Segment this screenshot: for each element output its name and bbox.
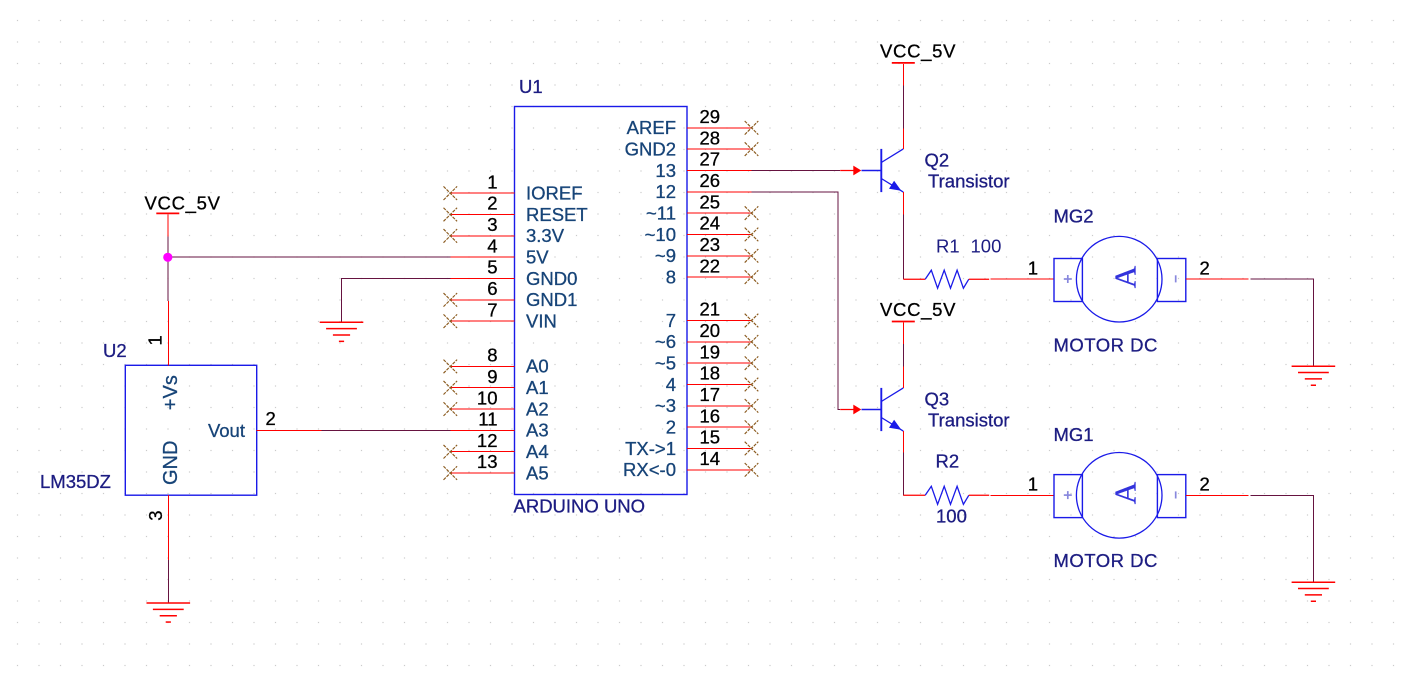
- U1 pin 11 (A3): [450, 409, 548, 441]
- resistor R2: [903, 486, 989, 504]
- wire Q2 emitter down to R1: [902, 215, 904, 280]
- unconnected pin marker U1 pin 9: [444, 381, 458, 395]
- svg-text:25: 25: [700, 191, 721, 212]
- wire U2 GND pin to ground: [167, 560, 169, 603]
- IC U1 ARDUINO UNO body: [515, 107, 688, 495]
- unconnected pin marker U1 pin 6: [444, 293, 458, 307]
- svg-text:MOTOR DC: MOTOR DC: [1054, 335, 1158, 356]
- power symbol VCC_5V above Q3: [880, 299, 956, 322]
- wire VCC to Q2 collector: [902, 64, 904, 86]
- transistor Q3 (NPN): [862, 388, 904, 431]
- U1 pin 18 (4): [666, 363, 752, 395]
- U1 pin 19 (~5): [655, 341, 752, 373]
- unconnected pin marker U1 pin 22: [745, 270, 759, 284]
- svg-text:VCC_5V: VCC_5V: [145, 193, 221, 215]
- label R1 100: [936, 235, 1001, 256]
- svg-text:GND2: GND2: [625, 138, 676, 159]
- power symbol VCC_5V left (U2 supply): [145, 193, 221, 215]
- unconnected pin marker U1 pin 14: [745, 463, 759, 477]
- U1 pin 12 (A4): [450, 430, 548, 462]
- unconnected pin marker U1 pin 20: [745, 335, 759, 349]
- svg-text:U2: U2: [103, 340, 127, 361]
- svg-text:22: 22: [700, 255, 721, 276]
- wire MG2 pin 2 to ground: [1250, 279, 1313, 366]
- Q2 emitter stub: [902, 192, 904, 215]
- U1 pin 21 (7): [666, 299, 752, 331]
- svg-text:18: 18: [700, 363, 721, 384]
- svg-text:IOREF: IOREF: [526, 183, 583, 204]
- unconnected pin marker U1 pin 2: [444, 208, 458, 222]
- svg-text:3: 3: [487, 214, 497, 235]
- U1 pin 23 (~9): [655, 234, 752, 266]
- svg-text:8: 8: [666, 266, 676, 287]
- unconnected pin marker U1 pin 24: [745, 228, 759, 242]
- U2 pin 1 stub: [167, 301, 169, 365]
- svg-text:2: 2: [1200, 257, 1210, 278]
- svg-text:2: 2: [1200, 473, 1210, 494]
- U1 pin 15 (TX->1): [625, 427, 751, 459]
- svg-text:100: 100: [936, 505, 967, 526]
- IC U2 LM35DZ body: [125, 365, 256, 495]
- svg-text:2: 2: [487, 193, 497, 214]
- svg-text:6: 6: [487, 278, 497, 299]
- svg-text:MOTOR DC: MOTOR DC: [1054, 550, 1158, 571]
- svg-text:Vout: Vout: [208, 420, 245, 441]
- unconnected pin marker U1 pin 28: [745, 142, 759, 156]
- svg-text:9: 9: [487, 366, 497, 387]
- Q2 collector stub: [902, 128, 904, 149]
- wire U1 pin 27 (13) to Q2 base: [752, 170, 841, 172]
- U2 pin 3 stub: [167, 495, 169, 560]
- U1 pin 26 (12): [655, 170, 751, 202]
- svg-text:11: 11: [478, 409, 497, 430]
- svg-text:LM35DZ: LM35DZ: [40, 471, 111, 492]
- unconnected pin marker U1 pin 8: [444, 360, 458, 374]
- U1 pin 2 (RESET): [450, 193, 587, 225]
- unconnected pin marker U1 pin 10: [444, 402, 458, 416]
- svg-text:~6: ~6: [655, 331, 676, 352]
- svg-text:~3: ~3: [655, 395, 676, 416]
- MG2 pin 1 stub: [991, 278, 1055, 280]
- unconnected pin marker U1 pin 7: [444, 314, 458, 328]
- unconnected pin marker U1 pin 21: [745, 314, 759, 328]
- svg-text:AREF: AREF: [627, 117, 676, 138]
- ground for U1 GND0: [320, 322, 364, 341]
- svg-text:4: 4: [666, 374, 676, 395]
- svg-text:A5: A5: [526, 462, 549, 483]
- svg-text:A0: A0: [526, 356, 549, 377]
- svg-text:1: 1: [487, 171, 497, 192]
- ground for MG2: [1292, 366, 1336, 385]
- svg-text:1: 1: [1028, 257, 1038, 278]
- U1 pin 9 (A1): [450, 366, 548, 398]
- svg-text:26: 26: [700, 170, 721, 191]
- svg-text:RESET: RESET: [526, 204, 588, 225]
- U1 pin 4 (5V): [450, 235, 549, 267]
- svg-text:1: 1: [144, 335, 165, 345]
- U1 pin 17 (~3): [655, 384, 752, 416]
- svg-text:Q3: Q3: [925, 388, 950, 409]
- svg-text:~9: ~9: [655, 245, 676, 266]
- svg-text:A3: A3: [526, 420, 549, 441]
- svg-text:5: 5: [487, 257, 497, 278]
- unconnected pin marker U1 pin 23: [745, 249, 759, 263]
- svg-text:~5: ~5: [655, 353, 676, 374]
- svg-text:+Vs: +Vs: [160, 375, 182, 410]
- svg-text:ARDUINO UNO: ARDUINO UNO: [514, 496, 646, 517]
- unconnected pin marker U1 pin 1: [444, 186, 458, 200]
- svg-text:GND0: GND0: [526, 268, 577, 289]
- junction node at VCC/5V: [163, 253, 172, 262]
- svg-text:27: 27: [700, 149, 721, 170]
- resistor R1: [903, 270, 989, 288]
- svg-text:8: 8: [487, 345, 497, 366]
- svg-text:R1: R1: [936, 235, 960, 256]
- motor MG1: [1054, 453, 1186, 539]
- power symbol VCC_5V above Q2: [880, 41, 956, 63]
- U1 pin 24 (~10): [645, 213, 752, 245]
- unconnected pin marker U1 pin 13: [444, 466, 458, 480]
- svg-text:GND: GND: [160, 441, 182, 485]
- svg-text:3: 3: [145, 511, 166, 521]
- wire VCC to Q3 collector: [902, 323, 904, 344]
- unconnected pin marker U1 pin 25: [745, 206, 759, 220]
- MG1 pin 1 stub: [991, 494, 1055, 496]
- svg-text:Transistor: Transistor: [928, 170, 1010, 191]
- U1 pin 6 (GND1): [450, 278, 577, 310]
- unconnected pin marker U1 pin 18: [745, 378, 759, 392]
- svg-text:RX<-0: RX<-0: [623, 459, 676, 480]
- U1 pin 29 (AREF): [627, 106, 752, 138]
- transistor Q2 (NPN): [862, 149, 904, 192]
- Q3 emitter stub: [902, 431, 904, 453]
- svg-text:2: 2: [266, 408, 276, 429]
- U1 pin 8 (A0): [450, 345, 548, 377]
- U1 pin 13 (A5): [450, 451, 548, 483]
- unconnected pin marker U1 pin 12: [444, 445, 458, 459]
- svg-text:A: A: [1107, 481, 1142, 504]
- svg-text:12: 12: [477, 430, 498, 451]
- U1 pin 28 (GND2): [625, 127, 752, 159]
- svg-text:23: 23: [700, 234, 721, 255]
- svg-text:VCC_5V: VCC_5V: [880, 41, 956, 63]
- ground for MG1: [1292, 582, 1336, 601]
- MG2 pin 2 stub: [1186, 278, 1249, 280]
- unconnected pin marker U1 pin 19: [745, 356, 759, 370]
- wire VCC_5V lead down to junction: [167, 215, 169, 237]
- svg-text:21: 21: [700, 299, 721, 320]
- svg-text:2: 2: [666, 416, 676, 437]
- wire junction to U2 pin 1: [167, 237, 169, 301]
- svg-text:17: 17: [700, 384, 721, 405]
- svg-text:12: 12: [655, 181, 676, 202]
- U1 pin 20 (~6): [655, 320, 752, 352]
- svg-text:20: 20: [700, 320, 721, 341]
- svg-text:A: A: [1107, 265, 1142, 288]
- U1 pin 25 (~11): [646, 191, 752, 223]
- svg-text:29: 29: [700, 106, 721, 127]
- svg-text:13: 13: [655, 160, 676, 181]
- U1 pin 1 (IOREF): [450, 171, 582, 203]
- svg-text:~11: ~11: [646, 202, 676, 223]
- U2 pin 2 stub: [257, 429, 322, 431]
- ground for U2 GND: [147, 603, 191, 622]
- svg-text:TX->1: TX->1: [625, 438, 676, 459]
- svg-text:5V: 5V: [526, 247, 549, 268]
- wire U1 pin 26 (12) to Q3 base: [752, 192, 841, 410]
- U1 pin 14 (RX<-0): [623, 448, 751, 480]
- svg-text:1: 1: [1028, 473, 1038, 494]
- svg-text:A4: A4: [526, 441, 549, 462]
- svg-text:Transistor: Transistor: [928, 409, 1010, 430]
- svg-text:13: 13: [477, 451, 498, 472]
- svg-text:4: 4: [487, 235, 497, 256]
- svg-text:MG2: MG2: [1054, 206, 1094, 227]
- MG1 pin 2 stub: [1186, 494, 1249, 496]
- wire U2 Vout to U1 A3: [321, 429, 450, 431]
- Q3 base stub with arrow: [840, 405, 861, 415]
- unconnected pin marker U1 pin 15: [745, 442, 759, 456]
- svg-text:VIN: VIN: [526, 311, 557, 332]
- U1 pin 10 (A2): [450, 387, 548, 419]
- svg-text:7: 7: [666, 310, 676, 331]
- svg-text:14: 14: [700, 448, 721, 469]
- motor MG2: [1054, 236, 1186, 322]
- svg-text:3.3V: 3.3V: [526, 225, 565, 246]
- svg-text:28: 28: [700, 127, 721, 148]
- unconnected pin marker U1 pin 3: [444, 229, 458, 243]
- U1 pin 22 (8): [666, 255, 752, 287]
- wire U1 GND0 to ground: [342, 279, 451, 323]
- svg-text:15: 15: [700, 427, 721, 448]
- svg-text:19: 19: [700, 341, 721, 362]
- unconnected pin marker U1 pin 16: [745, 420, 759, 434]
- svg-text:GND1: GND1: [526, 289, 577, 310]
- svg-text:100: 100: [971, 235, 1002, 256]
- svg-text:A2: A2: [526, 398, 549, 419]
- Q2 base stub with arrow: [840, 166, 861, 176]
- wire Q3 emitter down to R2: [902, 453, 904, 496]
- U1 pin 3 (3.3V): [450, 214, 564, 246]
- U1 pin 7 (VIN): [450, 299, 557, 331]
- svg-text:24: 24: [700, 213, 721, 234]
- svg-text:R2: R2: [936, 451, 960, 472]
- svg-text:U1: U1: [519, 76, 543, 97]
- wire junction to U1 pin 4 (5V): [168, 256, 451, 258]
- svg-text:~10: ~10: [645, 224, 676, 245]
- svg-text:16: 16: [700, 405, 721, 426]
- svg-text:MG1: MG1: [1054, 424, 1094, 445]
- unconnected pin marker U1 pin 17: [745, 399, 759, 413]
- U1 pin 27 (13): [655, 149, 751, 181]
- unconnected pin marker U1 pin 29: [745, 121, 759, 135]
- U1 pin 5 (GND0): [450, 257, 577, 289]
- svg-text:7: 7: [487, 299, 497, 320]
- svg-text:VCC_5V: VCC_5V: [880, 299, 956, 321]
- svg-text:Q2: Q2: [925, 149, 950, 170]
- wire MG1 pin 2 to ground: [1250, 495, 1313, 582]
- Q3 collector stub: [902, 366, 904, 388]
- svg-text:10: 10: [477, 387, 498, 408]
- U1 pin 16 (2): [666, 405, 752, 437]
- svg-text:A1: A1: [526, 377, 549, 398]
